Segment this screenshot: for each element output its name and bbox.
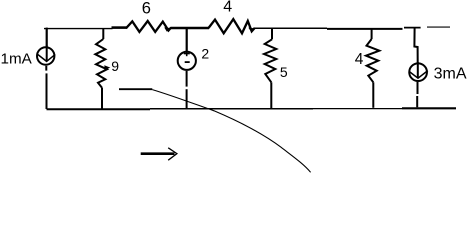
wire R3 top stub <box>102 29 104 40</box>
resistor R2 4ohm zigzag <box>209 19 255 33</box>
annotation arrowhead <box>168 148 177 160</box>
wire I2 top lead with jog <box>414 29 417 63</box>
current source I2 arrow shaft <box>417 62 419 78</box>
current source I1 arrow shaft <box>46 46 48 62</box>
wire I2 bottom stub lower <box>416 96 418 107</box>
svg-text:5: 5 <box>280 64 288 80</box>
resistor R3 9ohm zigzag <box>95 39 107 88</box>
resistor R1 6ohm zigzag <box>126 21 171 32</box>
wire V1 bottom stub upper <box>186 71 188 87</box>
resistor R1 end tick <box>164 27 172 31</box>
resistor R3 tick <box>104 65 110 69</box>
wire I2 bottom stub upper <box>417 82 419 94</box>
svg-text:4: 4 <box>355 51 364 68</box>
wire top rail between R1 and R2 <box>171 27 210 30</box>
voltage source V1 plus sign vertical <box>186 50 188 56</box>
wire left branch top stub <box>46 28 48 47</box>
resistor R5 4ohm zigzag <box>366 39 379 82</box>
wire top rail left thin segment <box>44 28 113 30</box>
svg-text:2: 2 <box>201 46 209 62</box>
wire top rail near I2 <box>404 27 421 29</box>
svg-text:9: 9 <box>111 58 119 74</box>
voltage source V1 circle <box>178 52 196 70</box>
wire V1 bottom stub lower <box>186 89 188 108</box>
wire bottom rail middle right <box>313 108 402 110</box>
wire V1 top stub <box>186 29 188 51</box>
voltage source V1 minus sign <box>185 61 190 63</box>
wire bottom rail right thick <box>402 107 456 109</box>
wire R5 bottom stub <box>372 82 374 108</box>
svg-text:4: 4 <box>223 0 232 16</box>
current source I1 circle <box>37 47 54 64</box>
annotation arrow shaft <box>141 152 175 155</box>
current source I2 circle <box>409 63 427 81</box>
wire top rail right end <box>427 26 450 28</box>
wire R5 top stub <box>371 29 373 39</box>
current source I2 arrowhead <box>409 71 427 79</box>
wire R4 top stub <box>271 29 273 40</box>
wire bottom rail left <box>47 108 151 110</box>
wire top rail thick right segment <box>327 28 403 30</box>
resistor R2 end tick <box>248 28 255 32</box>
annotation freehand curve <box>152 90 310 173</box>
svg-text:3mA: 3mA <box>434 65 467 82</box>
wire R4 bottom stub <box>270 82 272 108</box>
resistor R4 5ohm zigzag <box>264 39 276 82</box>
svg-text:1mA: 1mA <box>1 50 33 67</box>
current source I1 arrowhead <box>38 54 55 61</box>
wire top rail after R2 thin <box>254 27 327 29</box>
wire R3 bottom stub <box>101 88 103 109</box>
annotation horizontal stroke <box>119 88 152 90</box>
wire bottom rail middle <box>150 108 313 110</box>
svg-text:6: 6 <box>142 0 151 18</box>
voltage source V1 plus sign horizontal <box>184 53 190 55</box>
wire left branch bottom stub upper <box>45 66 47 71</box>
wire left branch bottom stub lower <box>46 73 48 109</box>
wire top rail thick segment before R1 <box>112 26 127 29</box>
